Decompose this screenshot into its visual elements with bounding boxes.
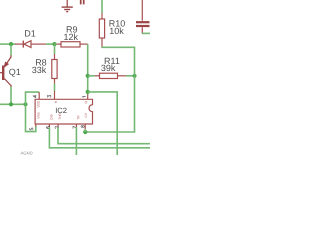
- wire pin 8 to node: [84, 129, 86, 132]
- svg-text:AGND: AGND: [21, 150, 33, 155]
- node junction (11,44): [9, 42, 13, 46]
- pin 3 stub: [54, 91, 56, 99]
- svg-text:VDD: VDD: [37, 100, 41, 107]
- wire to pin 4: [26, 92, 40, 104]
- svg-text:12k: 12k: [64, 32, 79, 42]
- pin 8 stub: [84, 124, 86, 129]
- transistor Q1: [0, 55, 11, 87]
- wire pin 7: [75, 127, 77, 155]
- node junction (85,132): [83, 130, 87, 134]
- pin number 4: [33, 95, 36, 97]
- wire left edge to D1 node: [0, 43, 16, 45]
- wire pin1 node to right drop: [88, 92, 118, 155]
- svg-text:VSS: VSS: [37, 112, 41, 118]
- wire R8 to pin3: [54, 84, 56, 91]
- wire pin 6: [49, 127, 150, 148]
- pin number 2: [55, 126, 58, 128]
- wire R10 to node (134.5,75): [102, 47, 135, 76]
- pin number 6: [46, 126, 49, 128]
- pin 2 stub: [57, 124, 59, 127]
- pin number 5: [30, 128, 33, 130]
- capacitor C (top edge, partially cut): [81, 0, 84, 4]
- svg-text:THR: THR: [58, 112, 62, 119]
- resistor R8: [52, 44, 57, 84]
- wire cap to right edge: [142, 32, 150, 34]
- capacitor C2 (top right): [136, 0, 150, 33]
- node junction (25.5,104): [23, 102, 27, 106]
- wire node down to pin8 rail: [85, 76, 134, 132]
- svg-text:D1: D1: [24, 28, 36, 38]
- wire Q1 collector down: [10, 87, 12, 105]
- pin 1 stub: [87, 95, 89, 100]
- svg-text:39k: 39k: [101, 63, 116, 73]
- wire node down to Q1 emitter: [10, 44, 12, 55]
- wire R9 right down to pin 1: [87, 44, 89, 94]
- node junction (88.6,75): [86, 74, 90, 78]
- wire to pin 5: [26, 104, 36, 131]
- node junction (88.6,91.5): [86, 90, 90, 94]
- diode D1: [15, 41, 46, 48]
- svg-text:Q1: Q1: [9, 67, 21, 77]
- pin number 3: [48, 95, 51, 97]
- svg-text:10k: 10k: [109, 26, 124, 36]
- IC2 box: [35, 99, 92, 124]
- pin 7 stub: [75, 124, 77, 127]
- pin number 1: [83, 96, 86, 99]
- wire D1 to node (54.5,44): [46, 43, 55, 45]
- pin 6 stub: [48, 124, 50, 127]
- wire bottom-left rail: [0, 103, 26, 105]
- pin 5 stub: [35, 124, 37, 127]
- pin number 8: [81, 126, 84, 128]
- node junction (134.5,75): [132, 74, 136, 78]
- resistor R9: [55, 42, 88, 47]
- pin number 7: [73, 126, 76, 128]
- wire pin 2: [58, 127, 150, 144]
- pin 4 stub: [38, 92, 40, 99]
- svg-text:33k: 33k: [32, 65, 47, 75]
- ground: [62, 0, 73, 12]
- node junction (11,104): [9, 102, 13, 106]
- svg-text:TR: TR: [76, 115, 80, 120]
- resistor R11: [88, 73, 135, 78]
- node junction (54.5,44): [52, 42, 56, 46]
- resistor R10: [99, 0, 104, 47]
- svg-text:DIS: DIS: [49, 114, 53, 119]
